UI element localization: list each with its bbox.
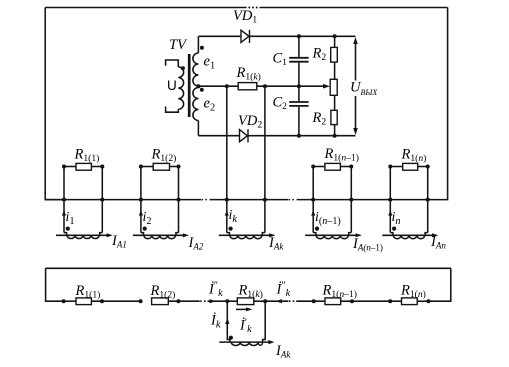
node left of R1(2)b bbox=[139, 299, 143, 303]
wire sub-loop left vertical bbox=[227, 301, 230, 342]
transformer TV secondary winding e2 bbox=[193, 88, 199, 121]
wire bottom line seg g bbox=[341, 300, 402, 302]
wire cell k left foot bbox=[227, 233, 230, 236]
wire bottom line seg b bbox=[91, 300, 140, 302]
wire bus outer-left to cell1 bbox=[45, 199, 64, 201]
wire cell n left vertical bbox=[389, 167, 391, 233]
wire sub-loop right vertical bbox=[263, 301, 266, 342]
winding (current transformer) cell 2 bbox=[144, 235, 176, 238]
polarity dot cell n-1 bbox=[315, 227, 319, 231]
node right of R1(1)b bbox=[100, 299, 104, 303]
wire U_BbIX measurement line bbox=[355, 41, 357, 130]
wire C column between mid and C2 bbox=[298, 86, 300, 101]
polarity dot cell k bbox=[229, 227, 233, 231]
wire cell n right vertical bbox=[427, 167, 429, 233]
polarity dot sub-loop bbox=[229, 336, 233, 340]
wire top line bbox=[198, 35, 355, 37]
wire bottom line dotted break 2 bbox=[289, 300, 296, 302]
wire bottom line seg e bbox=[254, 300, 289, 302]
node cell n top-right bbox=[426, 165, 430, 169]
node right of R1(k)b bbox=[263, 299, 267, 303]
wire cell k right vertical bbox=[264, 86, 266, 232]
node cell n-1 bus-left bbox=[311, 198, 315, 202]
wire bottom-loop top edge bbox=[46, 267, 451, 269]
node cell n top-left bbox=[388, 165, 392, 169]
wire bottom line seg f bbox=[296, 300, 325, 302]
wire cell 1 resistor line left bbox=[64, 166, 76, 168]
wire cell n-1 left foot bbox=[313, 233, 316, 236]
wire bus cellk to break2 bbox=[265, 199, 288, 201]
diode VD2 bbox=[240, 129, 249, 142]
node cell 2 top-left bbox=[139, 165, 143, 169]
arrowhead I_A1 bbox=[107, 233, 113, 237]
polarity dot cell n bbox=[392, 227, 396, 231]
transformer TV primary top lead bbox=[166, 60, 179, 67]
wire bus cell1 span bbox=[64, 199, 102, 201]
wire bus cellk span bbox=[227, 199, 265, 201]
wire bus dotted break 2 bbox=[289, 199, 297, 201]
node cell 1 top-left bbox=[62, 165, 66, 169]
node left of R1(n-1)b bbox=[312, 299, 316, 303]
node right of R1(n-1)b bbox=[350, 299, 354, 303]
arrowhead mid line into divider bbox=[323, 84, 330, 89]
resistor R1(1) bottom bbox=[76, 298, 91, 305]
wire bus break2 to cell4 bbox=[297, 199, 313, 201]
arrowhead I_An-1 bbox=[356, 233, 362, 237]
transformer TV primary bottom lead bbox=[166, 107, 179, 113]
node R2 column top bbox=[333, 34, 337, 38]
arrowhead i_k bbox=[225, 210, 229, 216]
resistor R1(n-1) bbox=[325, 163, 341, 170]
node cell 1 bus-right bbox=[100, 198, 104, 202]
wire outer frame top-left segment bbox=[45, 7, 246, 9]
arrowhead i_2 bbox=[139, 210, 143, 216]
wire cell 1 right foot bbox=[100, 233, 103, 236]
wire cell n resistor line right bbox=[418, 166, 428, 168]
wire bottom line seg h bbox=[417, 300, 428, 302]
node left of R1(k)b bbox=[225, 299, 229, 303]
wire cell 2 resistor line left bbox=[141, 166, 153, 168]
capacitor C2 bbox=[289, 102, 308, 106]
wire outer frame right side bbox=[428, 8, 448, 200]
node cell n bus-right bbox=[426, 198, 430, 202]
node C column mid bbox=[297, 84, 301, 88]
transformer TV core bbox=[188, 54, 191, 117]
wire cell n-1 left vertical bbox=[312, 167, 314, 233]
arrowhead U_BbIX up bbox=[353, 37, 358, 44]
wire C column between C1 and mid bbox=[298, 63, 300, 87]
wire cell 2 primary conductor bbox=[133, 234, 186, 236]
resistor R1(2) bbox=[153, 163, 169, 170]
arrowhead I_Ak bbox=[269, 233, 275, 237]
winding (current transformer) cell n bbox=[393, 235, 424, 238]
wire C column lower bbox=[298, 107, 300, 136]
wire bottom line seg d bbox=[208, 300, 238, 302]
potentiometer middle element bbox=[330, 79, 337, 95]
resistor R1(k) bottom bbox=[237, 298, 254, 305]
arrowhead i''k right (leftward) bbox=[276, 299, 283, 303]
wire outer frame top-right segment bbox=[260, 7, 448, 9]
node center tap bbox=[196, 84, 200, 88]
wire cell 2 left foot bbox=[141, 233, 144, 236]
wire cell 1 resistor line right bbox=[91, 166, 102, 168]
arrowhead i_n-1 bbox=[311, 210, 315, 216]
polarity dot cell 2 bbox=[143, 227, 147, 231]
wire cell k primary conductor bbox=[219, 234, 272, 236]
wire outer frame top dotted segment (3 dots) bbox=[248, 7, 250, 9]
wire cell 1 primary conductor bbox=[56, 234, 109, 236]
wire cell n primary conductor bbox=[382, 234, 434, 236]
wire C column upper bbox=[298, 36, 300, 57]
node right of R1(2)b bbox=[176, 299, 180, 303]
winding (current transformer) cell k bbox=[230, 235, 262, 238]
wire bottom line dotted break 1 bbox=[200, 300, 207, 302]
winding (current transformer) cell 1 bbox=[67, 235, 99, 238]
arrowhead i_n bbox=[388, 210, 392, 216]
resistor R1(n) bbox=[403, 163, 418, 170]
wire cell 1 left foot bbox=[64, 233, 67, 236]
node cell n-1 top-left bbox=[311, 165, 315, 169]
arrowhead I_An bbox=[432, 233, 438, 237]
node cell 2 top-right bbox=[177, 165, 181, 169]
node R2 column bottom bbox=[333, 134, 337, 138]
transformer TV secondary winding e1 bbox=[193, 53, 199, 86]
wire cell k right foot bbox=[262, 233, 265, 236]
arrowhead I_A2 bbox=[183, 233, 189, 237]
wire i'k arrow line bbox=[236, 308, 250, 310]
node cell n-1 bus-right bbox=[349, 198, 353, 202]
wire cell n right foot bbox=[425, 233, 428, 236]
node k-cell right at mid line bbox=[263, 84, 267, 88]
wire cell 2 right foot bbox=[176, 233, 179, 236]
wire cell n left foot bbox=[390, 233, 393, 236]
wire bus cell4 span bbox=[313, 199, 351, 201]
wire bus cell5 span bbox=[390, 199, 427, 201]
wire cell 2 left vertical bbox=[140, 167, 142, 233]
wire e1 top lead bbox=[197, 36, 199, 53]
arrowhead i'k bbox=[246, 307, 252, 311]
winding (current transformer) cell n-1 bbox=[316, 235, 348, 238]
winding (current transformer) sub-loop bbox=[231, 342, 262, 345]
wire cell n-1 resistor line left bbox=[313, 166, 325, 168]
wire bottom line seg c bbox=[168, 300, 199, 302]
wire bus dotted break 1 bbox=[202, 199, 210, 201]
node C column bottom bbox=[297, 134, 301, 138]
wire cell n-1 resistor line right bbox=[340, 166, 351, 168]
node right of R1(n)b bbox=[426, 299, 430, 303]
wire mid line from center tap bbox=[198, 85, 238, 87]
polarity dot primary winding bbox=[181, 66, 185, 70]
node C column top bbox=[297, 34, 301, 38]
wire bus break to cellk bbox=[210, 199, 227, 201]
wire outer frame left side bbox=[45, 8, 64, 200]
node cell 2 bus-right bbox=[177, 198, 181, 202]
arrowhead i_1 bbox=[62, 210, 66, 216]
svg-text:U: U bbox=[167, 78, 177, 93]
wire bottom line bbox=[198, 135, 355, 137]
wire cell n resistor line left bbox=[390, 166, 402, 168]
node cell 1 top-right bbox=[100, 165, 104, 169]
wire bottom-loop right edge bbox=[428, 268, 450, 301]
polarity dot cell 1 bbox=[66, 227, 70, 231]
polarity dot e1 bbox=[200, 46, 204, 50]
wire bus cell2 to break bbox=[179, 199, 202, 201]
wire bus cell2 span bbox=[141, 199, 179, 201]
diode VD1 bbox=[241, 30, 250, 43]
wire cell 2 resistor line right bbox=[170, 166, 179, 168]
wire bottom line seg a bbox=[64, 300, 76, 302]
arrowhead I_k up bbox=[225, 318, 229, 325]
wire sub-loop primary conductor bbox=[219, 341, 271, 343]
node k-cell left at mid line bbox=[225, 84, 229, 88]
node cell 1 bus-left bbox=[62, 198, 66, 202]
wire bus cell1-cell2 bbox=[102, 199, 141, 201]
wire cell n-1 right foot bbox=[349, 233, 352, 236]
wire bus cell4-cell5 bbox=[351, 199, 390, 201]
resistor R1(n) bottom bbox=[402, 298, 418, 305]
node left of R1(n)b bbox=[388, 299, 392, 303]
resistor R1(n-1) bottom bbox=[325, 298, 341, 305]
arrowhead i''k left (rightward) bbox=[210, 299, 217, 303]
wire bottom-loop left edge bbox=[46, 268, 64, 301]
node cell n bus-left bbox=[388, 198, 392, 202]
arrowhead U_BbIX down bbox=[353, 128, 358, 135]
resistor R1(1) bbox=[76, 163, 91, 170]
resistor R1(2) bottom bbox=[152, 298, 169, 305]
wire e2 bottom lead bbox=[197, 121, 199, 136]
arrowhead I_Ak bottom bbox=[268, 340, 274, 344]
resistor R1(k) bbox=[238, 83, 257, 90]
resistor R2 lower bbox=[331, 110, 337, 124]
wire cell 2 right vertical bbox=[178, 167, 180, 233]
capacitor C1 bbox=[289, 58, 308, 62]
wire R2 column bbox=[334, 36, 336, 135]
transformer TV primary winding bbox=[178, 67, 183, 109]
node cell k bus-left bbox=[225, 198, 229, 202]
svg-text:TV: TV bbox=[169, 37, 188, 53]
wire cell n-1 right vertical bbox=[350, 167, 352, 233]
polarity dot e2 bbox=[200, 88, 204, 92]
wire mid line right of R1(k) bbox=[257, 85, 324, 87]
node cell 2 bus-left bbox=[139, 198, 143, 202]
node cell n-1 top-right bbox=[349, 165, 353, 169]
resistor R2 upper bbox=[331, 47, 338, 62]
node cell k bus-right bbox=[263, 198, 267, 202]
wire cell 1 right vertical bbox=[101, 167, 103, 233]
label U_BbIX bbox=[349, 81, 383, 97]
node left of R1(1)b bbox=[62, 299, 66, 303]
wire cell 1 left vertical bbox=[63, 167, 65, 233]
wire cell k left vertical bbox=[226, 86, 228, 232]
wire cell n-1 primary conductor bbox=[305, 234, 358, 236]
